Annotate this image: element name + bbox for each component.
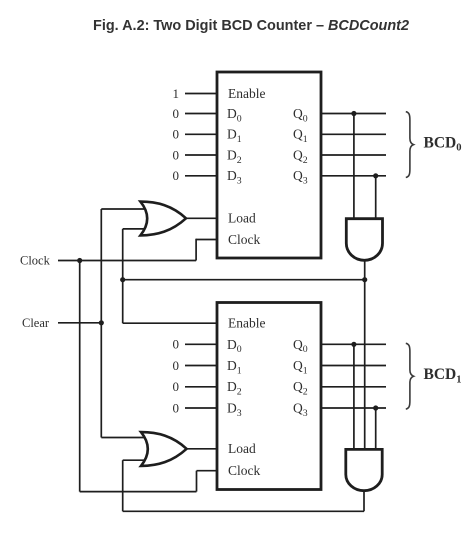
svg-text:0: 0 [173, 400, 180, 415]
svg-text:BCD1: BCD1 [424, 366, 462, 385]
svg-text:Clock: Clock [228, 463, 260, 478]
svg-text:0: 0 [173, 147, 180, 162]
svg-text:Enable: Enable [228, 86, 265, 101]
svg-text:0: 0 [173, 379, 180, 394]
svg-text:Load: Load [228, 441, 256, 456]
svg-text:1: 1 [173, 86, 180, 101]
svg-text:Fig. A.2: Two Digit BCD Counte: Fig. A.2: Two Digit BCD Counter – BCDCou… [93, 18, 409, 34]
svg-text:Load: Load [228, 211, 256, 226]
svg-text:Enable: Enable [228, 315, 265, 330]
svg-text:0: 0 [173, 127, 180, 142]
svg-text:Clock: Clock [20, 254, 51, 268]
svg-text:Clock: Clock [228, 232, 260, 247]
svg-text:Clear: Clear [22, 316, 50, 330]
svg-text:0: 0 [173, 106, 180, 121]
svg-text:0: 0 [173, 168, 180, 183]
svg-text:0: 0 [173, 337, 180, 352]
svg-text:0: 0 [173, 358, 180, 373]
svg-text:BCD0: BCD0 [424, 135, 462, 154]
